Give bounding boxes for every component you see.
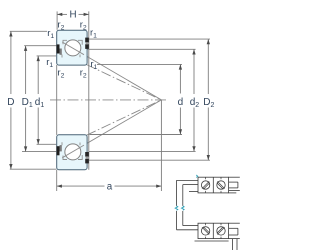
svg-text:D2: D2	[203, 97, 214, 109]
bearing section lower	[57, 135, 89, 170]
ball upper	[65, 40, 81, 56]
contact line dashdot lower	[87, 100, 162, 135]
dimension D	[10, 31, 56, 169]
pressure centre extension	[160, 100, 162, 191]
bearing section upper	[57, 30, 89, 65]
svg-text:r1: r1	[47, 28, 54, 40]
dimension d	[90, 64, 183, 134]
svg-text:d2: d2	[190, 97, 200, 109]
icon top unit shaft lines right	[229, 176, 240, 178]
dimension D1	[22, 46, 57, 152]
svg-text:r2: r2	[57, 20, 64, 32]
icon top unit lines left	[177, 179, 199, 181]
cage lower	[63, 156, 67, 160]
ball lower	[65, 144, 81, 160]
icon below line	[195, 240, 229, 242]
icon top unit box	[198, 177, 229, 193]
cage upper	[63, 40, 67, 44]
svg-text:D1: D1	[22, 97, 33, 109]
contact line solid lower	[62, 100, 161, 158]
a left extension	[56, 170, 58, 191]
icon bottom unit lines right	[229, 222, 240, 224]
outer flange right	[85, 38, 89, 43]
right face vertical line	[88, 11, 90, 169]
dimension d1	[37, 56, 57, 144]
icon left verticals	[176, 180, 178, 206]
chamfer labels	[46, 20, 97, 80]
ball contact diagonal lower	[62, 145, 84, 158]
outer flange right lower	[85, 152, 89, 157]
ball contact diagonal	[62, 42, 84, 55]
svg-text:r1: r1	[90, 28, 97, 40]
dimension D2	[89, 39, 210, 160]
icon ball ticks	[206, 177, 221, 238]
icon ball contact X lines	[202, 181, 225, 234]
inner ring seal left	[57, 44, 60, 53]
arrangement icon	[177, 177, 240, 250]
svg-text:d: d	[178, 97, 184, 108]
icon shaft continuation verticals	[232, 239, 234, 250]
inner ring seal left lower	[57, 146, 60, 155]
contact line solid upper	[62, 42, 161, 100]
svg-text:r1: r1	[46, 57, 53, 69]
svg-text:a: a	[107, 182, 113, 193]
svg-text:r2: r2	[57, 67, 64, 79]
icon bottom unit box	[198, 223, 229, 238]
dimension H	[57, 13, 89, 15]
dimension d2	[87, 49, 195, 151]
icon bottom unit lines left	[183, 225, 198, 227]
svg-text:r2: r2	[80, 67, 87, 79]
icon balls	[201, 181, 225, 235]
svg-text:r2: r2	[80, 20, 87, 32]
contact line dashdot upper	[87, 65, 162, 100]
H extension left	[56, 11, 58, 29]
dimension a	[57, 185, 162, 187]
svg-text:d1: d1	[35, 97, 45, 109]
left face vertical line	[56, 65, 58, 135]
svg-text:H: H	[69, 10, 76, 21]
icon springs teal	[175, 206, 184, 210]
icon tiny mark	[196, 175, 198, 177]
centerline axis	[50, 99, 167, 101]
svg-text:D: D	[7, 97, 14, 108]
